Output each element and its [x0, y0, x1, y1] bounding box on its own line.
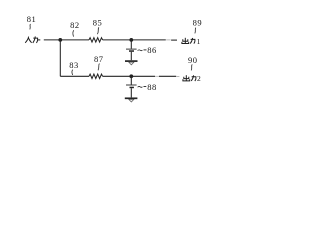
glyph 出 — [185, 75, 187, 81]
leader squiggle for 90 — [191, 64, 192, 70]
node A junction dot — [58, 38, 62, 42]
capacitor C88 top plate — [126, 84, 137, 86]
ground for C88: bar — [125, 97, 138, 99]
node C junction dot — [129, 74, 133, 78]
wire: resistor 87 to node C — [103, 75, 155, 77]
capacitor C86: lead from node B — [130, 40, 132, 49]
leader squiggle for 81 — [29, 24, 32, 29]
svg-text:83: 83 — [69, 60, 79, 70]
leader squiggle for 82 — [73, 30, 74, 36]
svg-text:88: 88 — [147, 82, 157, 92]
wire: input dash — [37, 39, 40, 41]
wire: input to node A — [44, 39, 89, 41]
capacitor C88 lead to ground — [130, 88, 132, 97]
wire: final dash before output 1 — [171, 39, 177, 41]
leader for 88: tilde and dash — [138, 85, 143, 88]
svg-text:90: 90 — [188, 55, 198, 65]
glyph 力 — [33, 38, 37, 43]
node B junction dot — [129, 38, 133, 42]
ground for C88: triangle — [129, 99, 134, 102]
output 1 label 出力1 (drawn glyphs) — [182, 38, 195, 44]
ground for C86: triangle — [129, 62, 134, 65]
resistor 87 — [89, 74, 103, 78]
capacitor C86 top plate — [126, 48, 137, 50]
svg-text:82: 82 — [70, 20, 80, 30]
wire: final dash before output 2 — [177, 76, 180, 78]
wire: dashed continuation to output 1 — [166, 39, 170, 41]
leader squiggle for 89 — [195, 28, 196, 34]
svg-text:85: 85 — [93, 18, 103, 28]
leader squiggle for 85 — [97, 27, 99, 34]
leader squiggle for 87 — [98, 64, 99, 71]
wire: dashed continuation to output 2 — [159, 75, 176, 77]
capacitor C88: lead from node C — [130, 76, 132, 84]
svg-text:2: 2 — [197, 74, 201, 83]
svg-text:86: 86 — [147, 45, 157, 55]
wire: lower horizontal from corner to resistor 87 — [60, 75, 89, 77]
capacitor C86 bottom plate (thick short) — [129, 50, 134, 52]
leader for 86: tilde and dash — [138, 49, 143, 52]
svg-text:87: 87 — [94, 54, 104, 64]
wire: resistor 85 to node B — [103, 39, 166, 41]
glyph 力 — [192, 77, 196, 81]
svg-text:89: 89 — [193, 17, 203, 27]
ground for C86: bar — [125, 60, 138, 62]
svg-text:1: 1 — [197, 37, 201, 46]
capacitor C88 bottom plate (thick short) — [130, 87, 134, 89]
output 2 label 出力2 (drawn glyphs) — [183, 75, 196, 81]
glyph 入 — [25, 37, 28, 43]
capacitor C86 lead to ground — [130, 52, 132, 60]
resistor 85 — [89, 38, 103, 42]
svg-text:81: 81 — [27, 14, 37, 24]
leader squiggle for 83 — [71, 70, 74, 75]
wire: vertical node A down — [59, 40, 61, 76]
glyph 力 — [191, 39, 195, 43]
glyph 出 — [184, 38, 186, 44]
input label 入力 (drawn glyphs) — [25, 36, 37, 43]
